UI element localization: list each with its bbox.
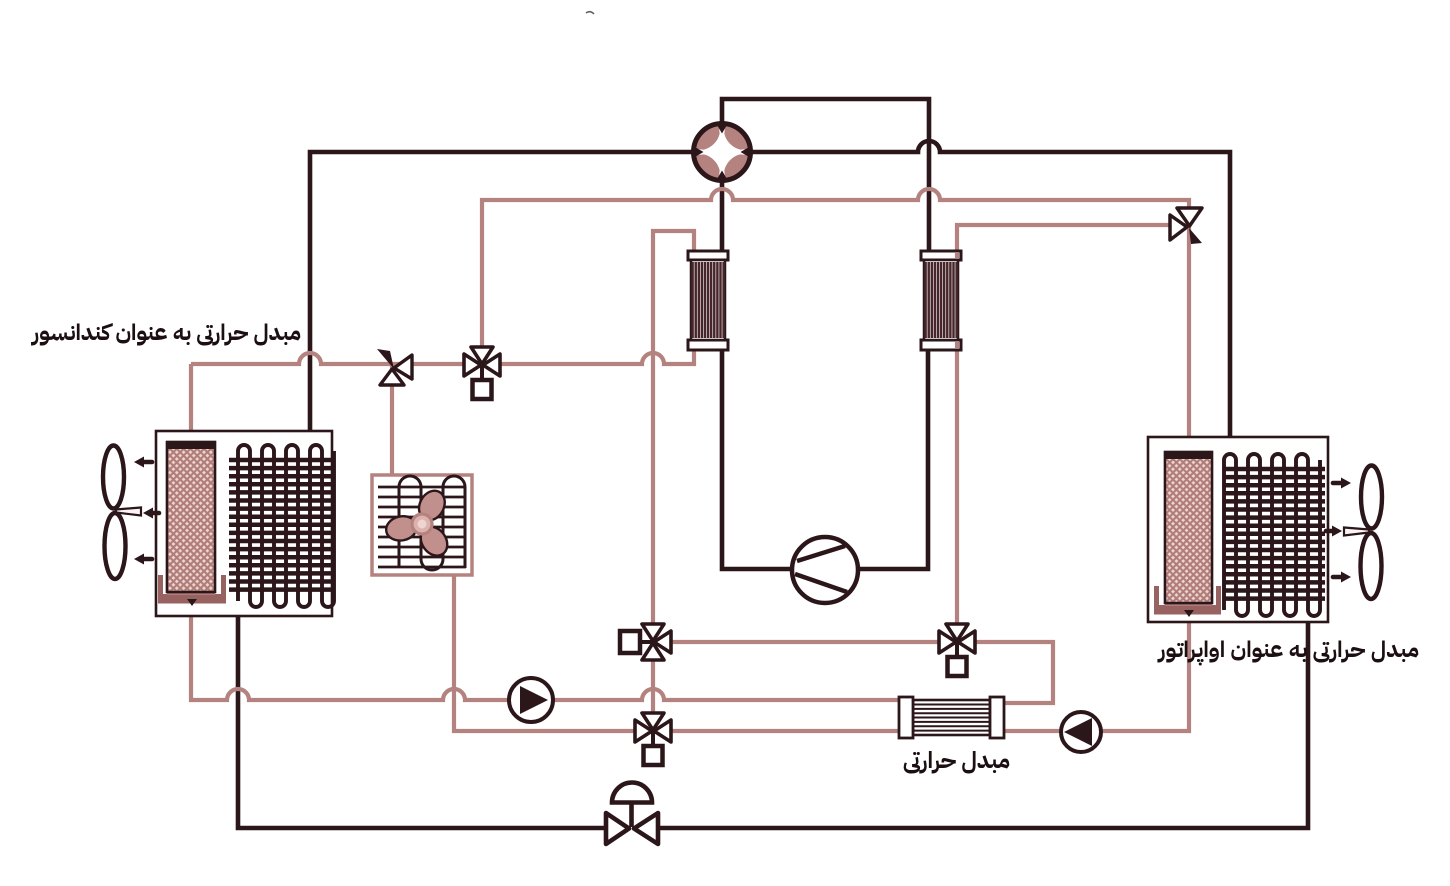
wire pink heat exchanger to evaporator tank via pump P2 bbox=[1003, 606, 1189, 731]
condenser fan F1 bbox=[103, 446, 141, 580]
three-way valve V3 (square left) bbox=[620, 624, 671, 660]
wire pink pump P1 suction line with hops bbox=[191, 600, 900, 700]
air flow arrow right bottom bbox=[1333, 572, 1351, 583]
filter drier FD1 (left striped cylinder) bbox=[688, 251, 728, 350]
pump P1 bbox=[509, 678, 553, 722]
globe valve V8 bbox=[606, 783, 658, 845]
wire pink angle valve drop to fan coil box bbox=[390, 366, 394, 480]
wire dark condenser coil down to bottom run bbox=[238, 598, 607, 828]
wire pink valve cross-over loop bbox=[653, 642, 1053, 703]
air flow arrow right top bbox=[1333, 478, 1351, 489]
fan coil unit FC1 (box fan) bbox=[372, 475, 472, 575]
wire dark bottom run to evaporator coil bbox=[657, 610, 1308, 828]
air flow arrow right middle bbox=[1326, 526, 1342, 537]
three-way valve V4 (lower) bbox=[635, 713, 671, 765]
check valve V7 bbox=[1170, 208, 1202, 244]
wire dark discharge top loop bbox=[722, 99, 929, 251]
evaporator tank (crosshatched) bbox=[1165, 452, 1212, 617]
wire pink 4-way bypass line with hops bbox=[482, 189, 1189, 452]
evaporator unit box bbox=[1148, 437, 1328, 622]
wire dark 4-way bottom to left drier bbox=[720, 180, 725, 253]
three-way valve V5 (right) bbox=[939, 624, 975, 676]
wire dark compressor to right drier bbox=[857, 349, 928, 569]
4-way reversing valve V1 bbox=[694, 124, 751, 181]
angle valve V6 bbox=[377, 349, 412, 385]
label: bottom heat-exchanger caption bbox=[907, 744, 1010, 778]
wire pink condenser tank feed bbox=[189, 364, 193, 446]
evaporator tank tray bbox=[1154, 586, 1221, 615]
condenser tank tray bbox=[158, 575, 226, 604]
label: evaporator heat-exchanger caption bbox=[1156, 633, 1422, 667]
wire pink right drier branch to check valve bbox=[957, 225, 1189, 640]
wire dark suction loop to compressor bbox=[722, 349, 793, 569]
heat exchanger HX3 (shell and tube) bbox=[899, 697, 1004, 738]
air flow arrow left top bbox=[134, 457, 152, 468]
filter drier FD2 (right striped cylinder) bbox=[921, 251, 961, 350]
evaporator coil (serpentine with fins) bbox=[1223, 454, 1325, 616]
air flow arrow left bottom bbox=[134, 554, 152, 565]
wire pink segment visible across FD2 caps bbox=[955, 253, 959, 348]
wire pink condenser header with hops bbox=[191, 231, 694, 729]
three-way valve V2 (mixing, by condenser header) bbox=[464, 347, 500, 399]
air flow arrow left middle bbox=[143, 508, 159, 519]
evaporator fan F2 bbox=[1344, 466, 1382, 600]
condenser coil (serpentine with fins) bbox=[229, 445, 334, 607]
compressor CP1 bbox=[792, 537, 858, 603]
wire dark 4-way left to condenser drop bbox=[310, 152, 694, 456]
label: condenser heat-exchanger caption bbox=[41, 317, 301, 350]
ink speck artifact bbox=[586, 12, 594, 14]
condenser unit box bbox=[156, 431, 332, 616]
wire dark 4-way right with hop to evaporator drop bbox=[750, 141, 1230, 463]
wire pink fan coil return line bbox=[454, 573, 900, 731]
condenser tank (crosshatched) bbox=[167, 442, 215, 606]
pump P2 bbox=[1061, 712, 1101, 752]
